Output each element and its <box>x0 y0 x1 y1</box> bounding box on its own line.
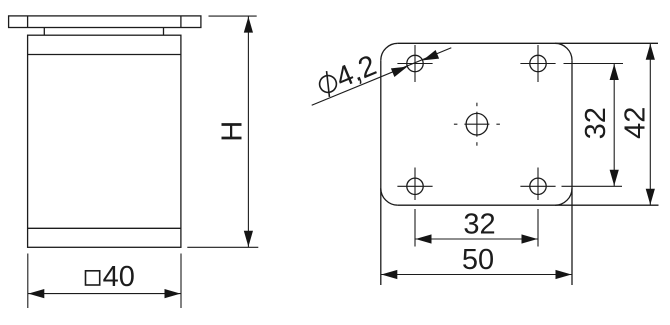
svg-text:H: H <box>217 121 249 142</box>
svg-text:40: 40 <box>103 261 135 293</box>
svg-text:32: 32 <box>463 209 495 241</box>
svg-text:50: 50 <box>462 244 494 276</box>
svg-text:4,2: 4,2 <box>331 49 380 94</box>
svg-text:32: 32 <box>580 107 612 139</box>
svg-text:42: 42 <box>620 107 652 139</box>
